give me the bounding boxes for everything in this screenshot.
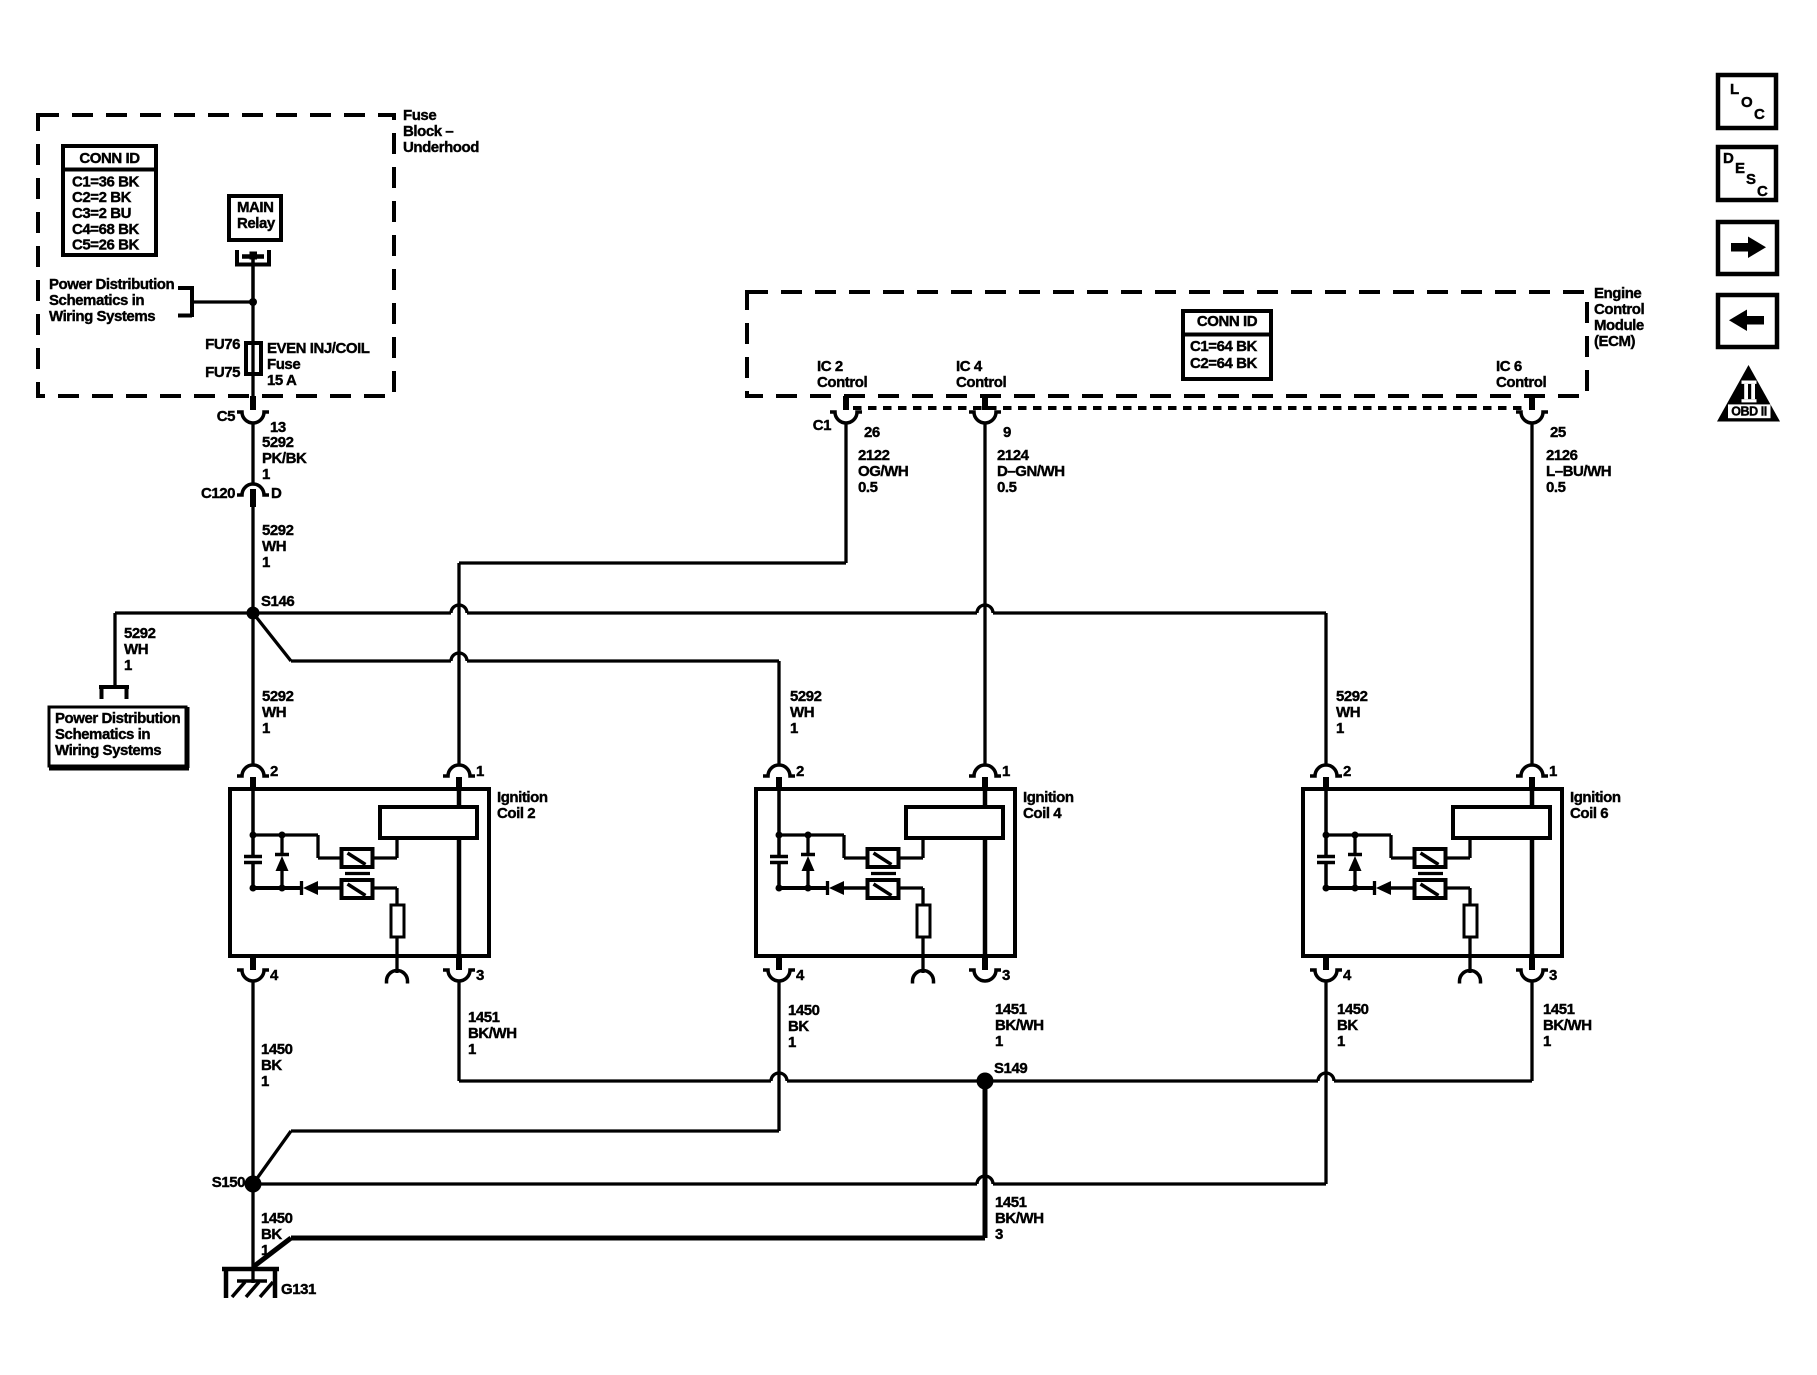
svg-text:Fuse: Fuse — [403, 107, 436, 124]
coil 2 tower rectangle — [380, 807, 477, 838]
coil 2 diode — [300, 881, 303, 895]
svg-text:2: 2 — [270, 763, 278, 780]
splice S149 — [977, 1073, 994, 1090]
svg-text:S149: S149 — [994, 1060, 1027, 1077]
wire 5292 PK/BK segment — [251, 423, 254, 483]
svg-text:WH: WH — [262, 704, 286, 721]
svg-text:(ECM): (ECM) — [1594, 333, 1636, 350]
wire S146 right branch to ignition coil 6 pin 2 — [253, 611, 451, 614]
wire 1450 BK coil4 pin4 branch — [777, 981, 780, 1131]
coil 2 resistor — [391, 905, 404, 937]
svg-text:FU75: FU75 — [205, 364, 240, 381]
svg-text:D–GN/WH: D–GN/WH — [997, 463, 1065, 480]
svg-text:BK/WH: BK/WH — [995, 1210, 1044, 1227]
svg-text:5292: 5292 — [262, 434, 294, 451]
svg-text:4: 4 — [1343, 967, 1352, 984]
svg-text:1: 1 — [1543, 1033, 1551, 1050]
coil 6 junction dots bottom rail — [1323, 885, 1330, 892]
svg-text:C: C — [1754, 106, 1765, 123]
LOC icon box — [1718, 75, 1776, 128]
ignition coil 2 box — [230, 789, 489, 956]
wire S146 down to ignition coil 2 pin 2 — [251, 613, 254, 765]
svg-text:Control: Control — [1594, 301, 1644, 318]
wire 1450 BK coil2 pin4 to S150 — [251, 981, 254, 1184]
svg-text:1451: 1451 — [995, 1194, 1027, 1211]
svg-text:BK: BK — [1337, 1017, 1358, 1034]
coil 4 internal bottom rail — [779, 886, 826, 890]
coil 4 tower rectangle — [906, 807, 1003, 838]
forward arrow icon box — [1718, 222, 1777, 274]
svg-text:Coil 6: Coil 6 — [1570, 805, 1608, 822]
splice S146 — [247, 607, 260, 620]
svg-text:Coil 4: Coil 4 — [1023, 805, 1062, 822]
ECM connector dotted bus line — [853, 406, 1523, 410]
svg-text:BK: BK — [261, 1226, 282, 1243]
svg-text:1: 1 — [262, 466, 270, 483]
svg-text:CONN ID: CONN ID — [1197, 313, 1258, 330]
svg-text:0.5: 0.5 — [1546, 479, 1566, 496]
wire 5292 WH to S146 — [251, 507, 254, 613]
svg-text:3: 3 — [995, 1226, 1003, 1243]
coil 4 junction dots top rail — [776, 832, 783, 839]
svg-text:Control: Control — [1496, 374, 1546, 391]
svg-text:25: 25 — [1550, 424, 1566, 441]
svg-text:C5: C5 — [217, 408, 235, 425]
coil 4 capacitor — [777, 835, 781, 855]
svg-text:1: 1 — [262, 554, 270, 571]
svg-text:2122: 2122 — [858, 447, 890, 464]
coil 2 capacitor — [251, 835, 255, 855]
wire 1451 BK/WH 3 from S149 to ground wire — [983, 1081, 988, 1238]
power distribution reference box — [49, 707, 186, 766]
coil 2 zener diode — [280, 835, 283, 853]
svg-text:3: 3 — [476, 967, 484, 984]
svg-text:Wiring Systems: Wiring Systems — [49, 308, 155, 325]
wire 2124 D-GN/WH IC4 control to coil 4 pin 1 — [983, 423, 986, 765]
svg-text:Underhood: Underhood — [403, 139, 479, 156]
svg-text:2126: 2126 — [1546, 447, 1578, 464]
CONN ID table (ECM) — [1183, 311, 1271, 379]
coil 4 pin 3 connector — [982, 956, 988, 970]
svg-text:1: 1 — [995, 1033, 1003, 1050]
svg-text:1: 1 — [261, 1242, 269, 1259]
svg-text:2: 2 — [1343, 763, 1351, 780]
svg-text:5292: 5292 — [790, 688, 822, 705]
svg-text:OBD II: OBD II — [1731, 405, 1767, 419]
coil 6 winding interconnect — [1446, 856, 1470, 859]
wire junction to fuse FU76 — [251, 302, 254, 344]
coil 4 zener diode — [806, 835, 809, 853]
svg-text:CONN ID: CONN ID — [79, 150, 140, 167]
svg-text:PK/BK: PK/BK — [262, 450, 307, 467]
svg-text:Power Distribution: Power Distribution — [55, 710, 181, 727]
coil 6 pin 4 connector — [1323, 956, 1329, 970]
svg-text:15 A: 15 A — [267, 372, 297, 389]
svg-text:IC 6: IC 6 — [1496, 358, 1522, 375]
coil 6 secondary to resistor wire — [1446, 886, 1470, 889]
ignition coil 2 pin 1 connector — [443, 765, 475, 776]
coil 6 core — [1418, 872, 1443, 875]
svg-text:Power Distribution: Power Distribution — [49, 276, 175, 293]
svg-text:0.5: 0.5 — [858, 479, 878, 496]
svg-text:BK/WH: BK/WH — [1543, 1017, 1592, 1034]
coil 4 junction dots bottom rail — [776, 885, 783, 892]
connector C120 pin D — [237, 484, 269, 495]
svg-text:0.5: 0.5 — [997, 479, 1017, 496]
ignition coil 6 box — [1303, 789, 1562, 956]
svg-text:Schematics in: Schematics in — [55, 726, 150, 743]
coil 2 core — [345, 872, 370, 875]
coil 2 secondary to resistor wire — [373, 886, 397, 889]
svg-text:C3=2 BU: C3=2 BU — [72, 205, 131, 222]
coil 6 internal bottom rail — [1326, 886, 1373, 890]
ignition coil 4 box — [756, 789, 1015, 956]
svg-text:O: O — [1741, 94, 1753, 111]
svg-text:E: E — [1735, 160, 1745, 177]
svg-text:1: 1 — [261, 1073, 269, 1090]
svg-text:L: L — [1730, 81, 1739, 98]
coil 2 internal bottom rail — [253, 886, 300, 890]
coil 2 internal top rail — [253, 833, 318, 836]
wire relay to junction — [251, 259, 255, 302]
wire 1451 BK/WH coil2 pin3 to S149 rail — [457, 981, 460, 1081]
engine control module dashed enclosure — [747, 292, 1587, 396]
coil 6 pin1 internal wire — [1530, 791, 1535, 807]
coil 6 secondary winding — [1415, 880, 1446, 898]
coil 4 core — [871, 872, 896, 875]
coil 4 primary winding — [868, 849, 899, 867]
svg-text:WH: WH — [790, 704, 814, 721]
svg-text:C2=64 BK: C2=64 BK — [1190, 355, 1257, 372]
coil 6 capacitor — [1324, 835, 1328, 855]
connector C5 pin 13 — [250, 396, 256, 410]
svg-text:1: 1 — [1549, 763, 1557, 780]
coil 2 spark output terminal — [387, 971, 408, 984]
svg-text:5292: 5292 — [262, 688, 294, 705]
coil 2 junction dots bottom rail — [250, 885, 257, 892]
svg-text:Coil 2: Coil 2 — [497, 805, 535, 822]
svg-text:EVEN INJ/COIL: EVEN INJ/COIL — [267, 340, 370, 357]
fuse FU75/FU76 EVEN INJ/COIL 15A — [251, 344, 254, 374]
svg-text:2124: 2124 — [997, 447, 1030, 464]
coil 6 pin 3 connector — [1529, 956, 1535, 970]
wire 1450 BK S150 to ground G131 — [251, 1184, 254, 1283]
ignition coil 4 pin 2 connector — [763, 765, 795, 776]
wire bracket to junction — [191, 300, 253, 303]
ground symbol G131 — [222, 1267, 279, 1272]
coil 2 pin 4 connector — [250, 956, 256, 970]
coil 6 spark output terminal — [1460, 971, 1481, 984]
svg-text:D: D — [271, 485, 282, 502]
svg-text:WH: WH — [262, 538, 286, 555]
connector C1 pin 26 (IC 2 control) — [843, 396, 849, 410]
svg-text:C1: C1 — [813, 417, 831, 434]
wire 2126 L-BU/WH IC6 control to coil 6 pin 1 — [1530, 423, 1533, 765]
svg-text:3: 3 — [1002, 967, 1010, 984]
MAIN Relay box — [229, 196, 281, 240]
svg-text:C1=36 BK: C1=36 BK — [72, 173, 139, 190]
svg-text:5292: 5292 — [1336, 688, 1368, 705]
coil 6 internal top rail — [1326, 833, 1391, 836]
svg-text:1: 1 — [124, 657, 132, 674]
coil 2 junction dots top rail — [250, 832, 257, 839]
svg-text:1451: 1451 — [468, 1009, 500, 1026]
fuse block - underhood dashed enclosure — [38, 115, 394, 396]
connector pin 9 (IC 4 control) — [982, 396, 988, 410]
svg-text:D: D — [1723, 150, 1734, 167]
coil 6 resistor — [1464, 905, 1477, 937]
coil 4 diode — [826, 881, 829, 895]
svg-text:Module: Module — [1594, 317, 1644, 334]
ground rail S150 to coil6 pin4 — [253, 1182, 977, 1185]
junction at relay feed — [249, 298, 257, 306]
svg-text:1451: 1451 — [1543, 1001, 1575, 1018]
svg-text:9: 9 — [1003, 424, 1011, 441]
coil 6 junction dots top rail — [1323, 832, 1330, 839]
svg-text:1: 1 — [468, 1041, 476, 1058]
coil 4 winding interconnect — [899, 856, 923, 859]
DESC icon box — [1718, 147, 1776, 200]
svg-text:IC 2: IC 2 — [817, 358, 843, 375]
coil 2 winding interconnect — [373, 856, 397, 859]
coil 4 secondary to resistor wire — [899, 886, 923, 889]
svg-text:Block –: Block – — [403, 123, 453, 140]
wire 2122 OG/WH IC2 control to coil 2 pin 1 — [844, 423, 847, 563]
svg-text:1450: 1450 — [261, 1210, 293, 1227]
wire fuse to C5 — [251, 374, 254, 397]
svg-text:1: 1 — [262, 720, 270, 737]
svg-text:2: 2 — [796, 763, 804, 780]
svg-text:1: 1 — [788, 1034, 796, 1051]
svg-text:3: 3 — [1549, 967, 1557, 984]
svg-text:BK/WH: BK/WH — [995, 1017, 1044, 1034]
coil 4 secondary winding — [868, 880, 899, 898]
svg-text:S146: S146 — [261, 593, 294, 610]
svg-text:26: 26 — [864, 424, 880, 441]
coil 4 pin2 internal wire — [777, 791, 781, 835]
svg-text:WH: WH — [124, 641, 148, 658]
ignition coil 6 pin 1 connector — [1516, 765, 1548, 776]
svg-text:5292: 5292 — [262, 522, 294, 539]
svg-text:1450: 1450 — [788, 1002, 820, 1019]
coil 2 pin1 internal wire — [457, 791, 462, 807]
svg-text:1: 1 — [1002, 763, 1010, 780]
coil 4 spark output terminal — [913, 971, 934, 984]
svg-text:Wiring Systems: Wiring Systems — [55, 742, 161, 759]
coil 4 resistor to spark output — [921, 937, 924, 973]
ignition coil 4 pin 1 connector — [969, 765, 1001, 776]
svg-text:Ignition: Ignition — [497, 789, 548, 806]
svg-text:S: S — [1746, 171, 1756, 188]
svg-text:OG/WH: OG/WH — [858, 463, 908, 480]
svg-text:1: 1 — [1337, 1033, 1345, 1050]
ignition coil 2 pin 2 connector — [237, 765, 269, 776]
coil 6 diode — [1373, 881, 1376, 895]
svg-text:L–BU/WH: L–BU/WH — [1546, 463, 1611, 480]
svg-text:C120: C120 — [201, 485, 235, 502]
svg-text:C4=68 BK: C4=68 BK — [72, 221, 139, 238]
svg-text:G131: G131 — [281, 1281, 316, 1298]
wire S146 left branch to off-page — [115, 611, 253, 614]
relay contact symbol — [237, 250, 269, 265]
connector pin 25 (IC 6 control) — [1529, 396, 1535, 410]
ground rail y1081 to coil6 pin3 — [459, 1079, 771, 1082]
coil 4 internal top rail — [779, 833, 844, 836]
svg-text:C2=2 BK: C2=2 BK — [72, 189, 132, 206]
svg-text:S150: S150 — [212, 1174, 245, 1191]
svg-text:Ignition: Ignition — [1570, 789, 1621, 806]
svg-text:Schematics in: Schematics in — [49, 292, 144, 309]
svg-text:Relay: Relay — [237, 215, 276, 232]
off-page pointer to power distribution — [99, 687, 129, 699]
svg-text:4: 4 — [796, 967, 805, 984]
svg-text:Control: Control — [956, 374, 1006, 391]
svg-text:WH: WH — [1336, 704, 1360, 721]
svg-text:MAIN: MAIN — [237, 199, 274, 216]
off-page reference bracket (power distribution) — [178, 286, 192, 317]
coil 6 pin2 internal wire — [1324, 791, 1328, 835]
coil 2 resistor to spark output — [395, 937, 398, 973]
svg-text:C: C — [1757, 183, 1768, 200]
ignition coil 6 pin 2 connector — [1310, 765, 1342, 776]
coil 6 primary winding — [1415, 849, 1446, 867]
coil 6 resistor to spark output — [1468, 937, 1471, 973]
svg-text:Fuse: Fuse — [267, 356, 300, 373]
svg-text:C1=64 BK: C1=64 BK — [1190, 338, 1257, 355]
coil 6 tower rectangle — [1453, 807, 1550, 838]
splice S150 — [245, 1176, 262, 1193]
coil 2 pin2 internal wire — [251, 791, 255, 835]
svg-text:BK: BK — [261, 1057, 282, 1074]
svg-text:1450: 1450 — [1337, 1001, 1369, 1018]
svg-text:BK: BK — [788, 1018, 809, 1035]
svg-text:Ignition: Ignition — [1023, 789, 1074, 806]
OBD II triangle icon — [1717, 365, 1780, 422]
svg-text:5292: 5292 — [124, 625, 156, 642]
svg-text:Control: Control — [817, 374, 867, 391]
svg-text:1: 1 — [476, 763, 484, 780]
coil 4 resistor — [917, 905, 930, 937]
svg-text:1: 1 — [790, 720, 798, 737]
coil 2 primary winding — [342, 849, 373, 867]
coil 6 zener diode — [1353, 835, 1356, 853]
svg-text:1451: 1451 — [995, 1001, 1027, 1018]
svg-text:Engine: Engine — [1594, 285, 1641, 302]
svg-text:C5=26 BK: C5=26 BK — [72, 237, 139, 254]
svg-text:IC 4: IC 4 — [956, 358, 983, 375]
coil 4 pin 4 connector — [776, 956, 782, 970]
svg-text:BK/WH: BK/WH — [468, 1025, 517, 1042]
svg-text:1450: 1450 — [261, 1041, 293, 1058]
svg-text:FU76: FU76 — [205, 336, 240, 353]
coil 2 secondary winding — [342, 880, 373, 898]
coil 2 pin 3 connector — [456, 956, 462, 970]
CONN ID table (fuse block) — [63, 146, 156, 255]
coil 4 pin1 internal wire — [983, 791, 988, 807]
svg-text:1: 1 — [1336, 720, 1344, 737]
wire S146 diagonal branch to ignition coil 4 pin 2 — [253, 613, 291, 661]
svg-text:4: 4 — [270, 967, 279, 984]
back arrow icon box — [1718, 295, 1777, 347]
